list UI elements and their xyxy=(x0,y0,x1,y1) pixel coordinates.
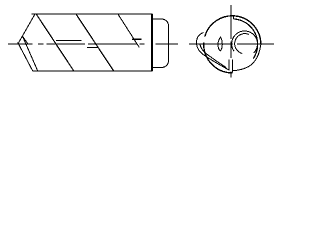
center swirl inner arc xyxy=(235,34,249,54)
side view outline top xyxy=(31,13,152,15)
spiral radial start top xyxy=(233,16,235,19)
spiral radial seam line 2 xyxy=(231,60,233,73)
inner edge line H1 xyxy=(56,40,82,42)
side view right end face xyxy=(151,14,153,71)
left end chamfer line xyxy=(18,14,35,43)
left end seam notch edge xyxy=(23,36,28,43)
seam diagonal D1 xyxy=(36,14,74,71)
end view horizontal centerline xyxy=(189,43,274,45)
end view vertical centerline xyxy=(230,5,232,77)
seam diagonal left pair 1 xyxy=(18,42,33,71)
end view outer circle xyxy=(205,16,261,45)
center lens xyxy=(218,37,222,51)
outer spiral sweep bottom-right xyxy=(232,44,261,70)
seam diagonal D2 xyxy=(76,14,114,71)
seam diagonal D3 xyxy=(118,14,139,47)
side view chamfer boss right xyxy=(152,19,169,67)
side view outline bottom xyxy=(33,70,153,72)
inner edge line H2 xyxy=(87,39,142,47)
end view seam tail arc xyxy=(196,33,229,71)
seam tail inner edge xyxy=(200,44,226,68)
side view centerline xyxy=(8,43,178,45)
seam diagonal left pair 2 xyxy=(23,36,38,71)
spiral radial seam line 1 xyxy=(228,60,230,71)
outer boundary bottom-left arc xyxy=(204,43,233,73)
center swirl outer arc xyxy=(232,31,258,53)
inner spiral arc xyxy=(234,19,258,59)
